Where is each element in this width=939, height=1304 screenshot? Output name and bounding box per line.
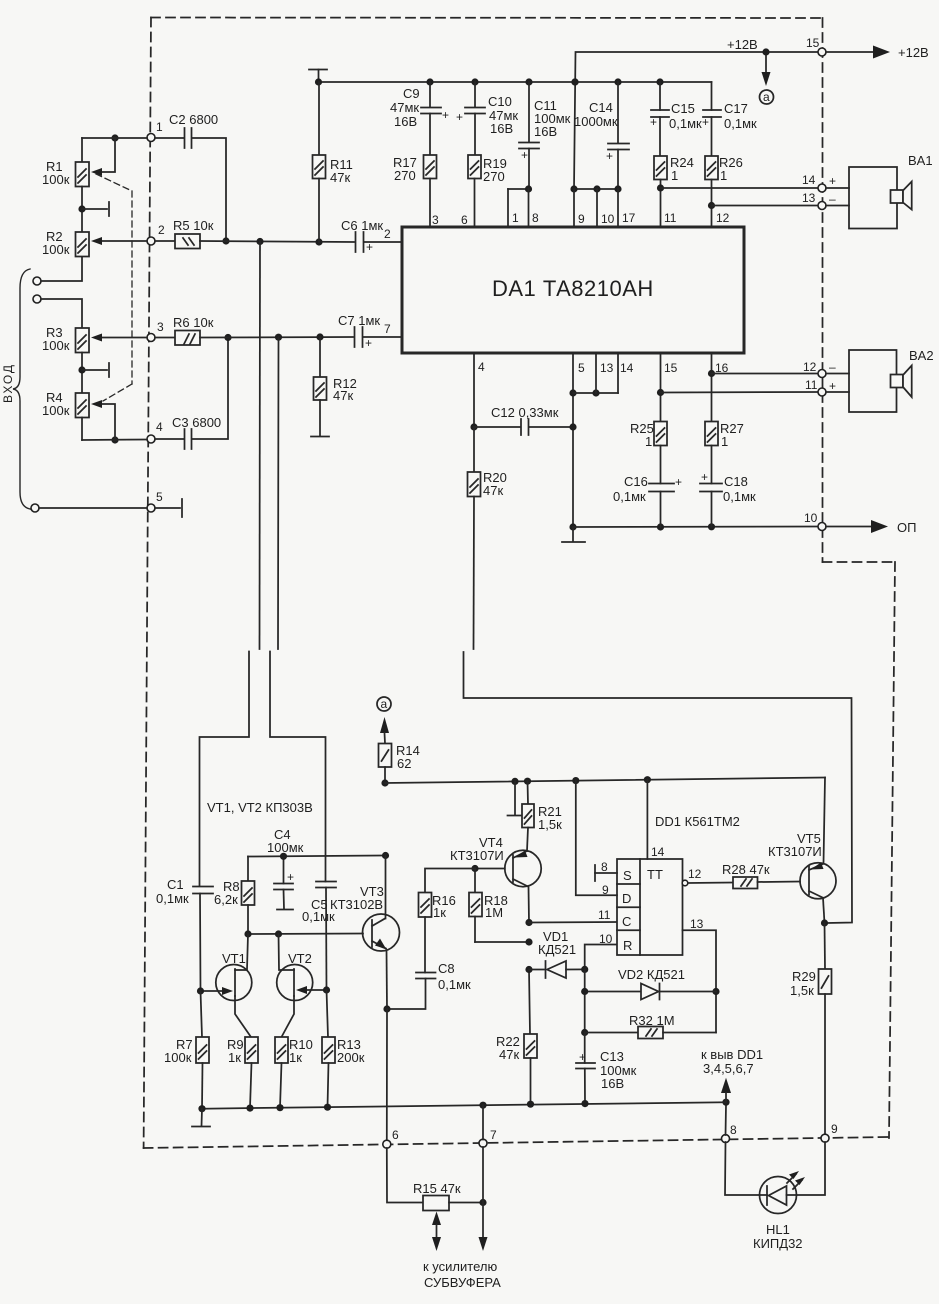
svg-text:+: + — [675, 475, 682, 489]
svg-text:0,1мк: 0,1мк — [156, 891, 189, 906]
wire ground bus outputs — [573, 523, 818, 530]
wire node5 row — [39, 499, 182, 517]
capacitor C3 6800 — [172, 415, 221, 449]
svg-text:R: R — [623, 938, 632, 953]
svg-text:КТ3102В: КТ3102В — [330, 897, 383, 912]
diode VD2 KD521 — [585, 967, 716, 1000]
node 5 — [147, 490, 163, 512]
resistor R1 — [42, 138, 89, 232]
svg-text:C: C — [622, 914, 631, 929]
node 9 — [821, 1122, 838, 1142]
svg-text:15: 15 — [664, 361, 678, 375]
svg-text:12: 12 — [803, 360, 817, 374]
resistor R7 100k — [164, 991, 209, 1109]
svg-text:10: 10 — [804, 511, 818, 525]
resistor R2 — [42, 229, 89, 257]
wire pin 16 down — [708, 353, 729, 422]
resistor R18 1M — [469, 865, 533, 946]
resistor R9 1k — [227, 1037, 258, 1108]
svg-text:3: 3 — [157, 320, 164, 334]
R2 wiper arrow from node 2 — [91, 237, 147, 245]
wire pin 15 down — [657, 353, 678, 422]
resistor R4 — [42, 390, 89, 440]
svg-text:1к: 1к — [228, 1050, 241, 1065]
svg-text:6: 6 — [461, 213, 468, 227]
node 1 — [147, 120, 163, 142]
tap bar between R1 R2 — [78, 202, 109, 216]
capacitor C6 1mk — [341, 218, 383, 254]
svg-text:а: а — [763, 90, 770, 104]
svg-text:+: + — [606, 149, 613, 163]
wire output 13 minus — [712, 191, 837, 206]
svg-text:–: – — [829, 192, 836, 206]
svg-text:1: 1 — [645, 434, 652, 449]
wire output 11 plus — [661, 378, 837, 393]
svg-text:47к: 47к — [330, 170, 350, 185]
ground bar under R12 — [311, 436, 329, 438]
node 4 — [147, 420, 163, 443]
resistor R25 1 — [630, 421, 667, 449]
wire output 12 minus — [712, 360, 837, 374]
wire bus pins 13 14 — [573, 353, 634, 397]
node a circle — [377, 697, 391, 711]
resistor R19 270 — [461, 155, 507, 227]
svg-text:2: 2 — [158, 223, 165, 237]
svg-text:VT1: VT1 — [222, 951, 246, 966]
svg-text:100к: 100к — [42, 403, 70, 418]
DD1 pin 9 D input wire — [576, 781, 617, 897]
svg-text:+: + — [579, 1050, 586, 1064]
svg-text:+: + — [701, 470, 708, 484]
wire bus pins 1 8 — [508, 185, 539, 227]
wire pin 4 down — [470, 353, 485, 431]
svg-text:C7 1мк: C7 1мк — [338, 313, 380, 328]
svg-text:1: 1 — [156, 120, 163, 134]
wire dashed enclosure border right lower — [889, 562, 895, 1138]
input jack 3 — [31, 504, 39, 512]
svg-text:8: 8 — [601, 860, 608, 874]
svg-text:+: + — [442, 108, 449, 122]
svg-text:+: + — [702, 115, 709, 129]
R15 wiper arrow to subwoofer — [432, 1212, 441, 1252]
svg-text:S: S — [623, 868, 632, 883]
wire bus pins 9 10 17 — [570, 185, 635, 227]
wire jack1 to R2 bottom — [41, 256, 82, 282]
svg-text:R29: R29 — [792, 969, 816, 984]
svg-text:СУБВУФЕРА: СУБВУФЕРА — [424, 1275, 501, 1290]
resistor R13 200k — [322, 990, 365, 1107]
svg-text:8: 8 — [532, 211, 539, 225]
svg-text:0,1мк: 0,1мк — [438, 977, 471, 992]
svg-text:1к: 1к — [289, 1050, 302, 1065]
svg-text:C10: C10 — [488, 94, 512, 109]
svg-text:9: 9 — [578, 212, 585, 226]
wire output 14 plus — [661, 173, 837, 188]
resistor R22 47k — [496, 970, 537, 1105]
transistor Q VT2 — [277, 934, 330, 1037]
svg-text:+: + — [365, 336, 372, 350]
input jack 1 — [33, 277, 41, 285]
svg-text:VD2 КД521: VD2 КД521 — [618, 967, 685, 982]
wire node8 to HL1 — [725, 1105, 760, 1195]
mechanical coupling dashed link — [96, 174, 132, 401]
wire node1 row — [82, 137, 184, 139]
svg-text:5: 5 — [156, 490, 163, 504]
wire VD row link — [581, 969, 588, 1036]
svg-text:R6 10к: R6 10к — [173, 315, 214, 330]
svg-text:7: 7 — [384, 322, 391, 336]
svg-text:C8: C8 — [438, 961, 455, 976]
svg-text:C17: C17 — [724, 101, 748, 116]
wire C3 to pin7 row — [192, 334, 232, 439]
ground bar top — [309, 70, 327, 83]
svg-text:100к: 100к — [42, 172, 70, 187]
svg-text:3,4,5,6,7: 3,4,5,6,7 — [703, 1061, 754, 1076]
DD1 pin 14 wire — [647, 780, 664, 859]
capacitor C9 47mk 16V — [390, 82, 449, 155]
svg-text:1,5к: 1,5к — [538, 817, 562, 832]
svg-text:0,1мк: 0,1мк — [723, 489, 756, 504]
resistor R12 47k — [314, 337, 357, 436]
wire ground bus bottom — [198, 1100, 726, 1112]
wire +12V feed — [571, 37, 822, 189]
resistor R3 — [42, 325, 89, 393]
resistor R16 1k — [419, 869, 476, 973]
capacitor C7 1mk — [338, 313, 380, 350]
capacitor C14 1000mk — [574, 82, 629, 189]
capacitor C2 6800 — [169, 112, 218, 148]
svg-text:15: 15 — [806, 36, 820, 50]
resistor R10 1k — [275, 1037, 313, 1108]
capacitor C10 47mk 16V — [456, 82, 518, 155]
transistor Q VT4 — [450, 835, 541, 923]
resistor R17 270 — [393, 155, 439, 227]
wire node6 to R15 — [387, 1148, 423, 1203]
svg-text:12: 12 — [688, 867, 702, 881]
svg-text:2: 2 — [384, 227, 391, 241]
svg-text:–: – — [829, 360, 836, 374]
flip-flop DD1 K561TM2 — [617, 814, 740, 955]
wire right channel feed lower — [270, 652, 326, 882]
wire left channel feed lower — [200, 652, 250, 887]
resistor R8 6.2k — [214, 857, 255, 935]
svg-text:16В: 16В — [490, 121, 513, 136]
svg-text:16В: 16В — [394, 114, 417, 129]
node 3 — [147, 320, 164, 342]
wire collector bus VT3 — [248, 852, 389, 860]
wire node7 down arrow — [479, 1147, 488, 1251]
svg-text:C18: C18 — [724, 474, 748, 489]
node 2 — [147, 223, 165, 245]
capacitor C8 0.1mk — [383, 961, 471, 1013]
wire VT3 base line — [244, 930, 363, 937]
capacitor C1 0.1mk — [156, 877, 213, 991]
svg-text:4: 4 — [156, 420, 163, 434]
svg-text:к усилителю: к усилителю — [423, 1259, 497, 1274]
svg-text:ОП: ОП — [897, 520, 916, 535]
wire node12 to BA2 — [826, 373, 849, 375]
capacitor C18 0.1mk — [700, 446, 756, 527]
wire node14 to BA1 — [826, 187, 849, 189]
node 13 — [818, 202, 826, 210]
DD1 pin 13 wire — [683, 917, 720, 1033]
resistor R28 47k — [722, 862, 800, 889]
svg-text:DD1 К561ТМ2: DD1 К561ТМ2 — [655, 814, 740, 829]
svg-text:КТ3107И: КТ3107И — [450, 848, 504, 863]
input brace — [13, 269, 30, 509]
input jack 2 — [33, 295, 41, 303]
svg-text:13: 13 — [802, 191, 816, 205]
label subwoofer output — [423, 1259, 501, 1290]
svg-text:13: 13 — [600, 361, 614, 375]
svg-text:КИПД32: КИПД32 — [753, 1236, 803, 1251]
svg-text:14: 14 — [651, 845, 665, 859]
svg-text:ВХОД: ВХОД — [1, 365, 15, 403]
R1 wiper arrow — [91, 134, 119, 176]
svg-text:DA1 ТА8210АН: DA1 ТА8210АН — [492, 276, 654, 301]
wire mid rail — [385, 776, 825, 785]
wire VT3 emitter to node 6 — [386, 1009, 388, 1140]
svg-text:12: 12 — [716, 211, 730, 225]
svg-text:100к: 100к — [164, 1050, 192, 1065]
resistor R14 62 — [379, 743, 420, 787]
tap bar between R3 R4 — [78, 363, 109, 377]
resistor R29 1.5k — [790, 923, 832, 1136]
svg-text:8: 8 — [730, 1123, 737, 1137]
svg-text:1М: 1М — [485, 905, 503, 920]
wire top supply rail — [315, 78, 712, 85]
diode VD1 KD521 — [525, 929, 584, 978]
wire pin7 row — [200, 333, 353, 340]
+12V output arrow — [826, 45, 929, 60]
capacitor C17 0.1mk — [702, 82, 757, 156]
R4 wiper arrow — [91, 400, 119, 444]
DD1 pin 12 output — [682, 867, 733, 886]
arrow to DD1 supply pins — [701, 1047, 763, 1106]
wire pin2 row — [200, 238, 354, 246]
wire C6 to DA1 pin 2 — [364, 227, 402, 242]
svg-text:16В: 16В — [601, 1076, 624, 1091]
wire node13 to BA1 — [826, 205, 849, 207]
wire dashed enclosure border right upper — [822, 18, 824, 562]
OP output arrow — [826, 520, 916, 535]
wire jack2 to R3 top — [41, 299, 82, 328]
svg-text:ТТ: ТТ — [647, 867, 663, 882]
svg-text:+: + — [829, 174, 836, 188]
LED HL1 KIPD32 — [753, 1171, 805, 1251]
node 10 — [804, 511, 826, 531]
svg-text:+12В: +12В — [727, 37, 758, 52]
potentiometer R15 47k — [413, 1181, 487, 1211]
resistor R20 47k — [468, 427, 507, 498]
svg-text:1: 1 — [671, 168, 678, 183]
svg-text:BA2: BA2 — [909, 348, 934, 363]
R3 wiper arrow from node 3 — [91, 334, 147, 342]
resistor R32 1M — [585, 1013, 716, 1039]
svg-text:14: 14 — [802, 173, 816, 187]
wire DD1 C input — [525, 908, 617, 926]
wire left channel feed upper — [259, 242, 262, 650]
svg-text:R5 10к: R5 10к — [173, 218, 214, 233]
node 8 — [722, 1123, 738, 1143]
svg-text:+12В: +12В — [898, 45, 929, 60]
wire dashed enclosure border jog — [823, 561, 896, 563]
speaker BA1 — [849, 153, 933, 229]
svg-text:R32 1М: R32 1М — [629, 1013, 675, 1028]
svg-text:VT2: VT2 — [288, 951, 312, 966]
svg-text:C3 6800: C3 6800 — [172, 415, 221, 430]
svg-text:11: 11 — [805, 378, 818, 392]
svg-text:62: 62 — [397, 756, 411, 771]
svg-text:+: + — [456, 110, 463, 124]
node a power arrow down — [760, 56, 774, 104]
svg-text:1к: 1к — [433, 905, 446, 920]
svg-text:C9: C9 — [403, 86, 420, 101]
svg-text:270: 270 — [483, 169, 505, 184]
capacitor C12 0.33mk — [474, 405, 573, 435]
svg-text:100мк: 100мк — [267, 840, 304, 855]
wire DD1 R input — [581, 932, 617, 973]
svg-text:47к: 47к — [333, 388, 353, 403]
wire node7 from bus — [482, 1105, 484, 1139]
svg-text:5: 5 — [578, 361, 585, 375]
svg-text:+: + — [829, 379, 836, 393]
resistor R21 1.5k — [522, 781, 562, 851]
svg-text:11: 11 — [598, 908, 611, 922]
svg-text:11: 11 — [664, 211, 677, 225]
transistor Q VT1 — [197, 934, 252, 1037]
svg-text:9: 9 — [831, 1122, 838, 1136]
node 11 — [818, 388, 826, 396]
svg-text:100к: 100к — [42, 338, 70, 353]
svg-text:C14: C14 — [589, 100, 613, 115]
svg-text:D: D — [622, 891, 631, 906]
svg-text:100к: 100к — [42, 242, 70, 257]
svg-text:0,1мк: 0,1мк — [669, 116, 702, 131]
transistor Q VT5 — [768, 778, 836, 927]
svg-text:C15: C15 — [671, 101, 695, 116]
resistor R26 1 — [705, 155, 743, 227]
svg-text:C12 0,33мк: C12 0,33мк — [491, 405, 559, 420]
svg-text:3: 3 — [432, 213, 439, 227]
svg-text:C6 1мк: C6 1мк — [341, 218, 383, 233]
node 15 — [806, 36, 826, 56]
svg-text:4: 4 — [478, 360, 485, 374]
resistor R24 1 — [654, 155, 694, 227]
wire node11 to BA2 — [826, 391, 849, 393]
capacitor C16 0.1mk — [613, 446, 682, 528]
wire dashed enclosure border top — [151, 17, 823, 20]
svg-text:47мк: 47мк — [390, 100, 419, 115]
svg-text:C16: C16 — [624, 474, 648, 489]
svg-text:47к: 47к — [499, 1047, 519, 1062]
speaker BA2 — [849, 348, 934, 412]
svg-text:а: а — [381, 697, 388, 711]
svg-text:10: 10 — [601, 212, 615, 226]
svg-text:C13: C13 — [600, 1049, 624, 1064]
svg-text:1000мк: 1000мк — [574, 114, 618, 129]
svg-text:BA1: BA1 — [908, 153, 933, 168]
svg-text:+: + — [650, 115, 657, 129]
svg-text:47к: 47к — [483, 483, 503, 498]
resistor R11 47k — [313, 82, 353, 242]
svg-text:9: 9 — [602, 883, 609, 897]
svg-text:C1: C1 — [167, 877, 184, 892]
svg-text:14: 14 — [620, 361, 634, 375]
wire pin 5 down — [569, 353, 585, 531]
wire R20 to VT5 collector — [464, 497, 853, 924]
node 14 — [818, 184, 826, 192]
node 6 — [383, 1128, 399, 1148]
svg-text:10: 10 — [599, 932, 613, 946]
wire node4 row — [82, 439, 184, 440]
node 7 — [479, 1128, 497, 1147]
wire right channel feed upper — [277, 337, 280, 649]
resistor R27 1 — [705, 421, 744, 449]
svg-text:1: 1 — [720, 168, 727, 183]
capacitor C11 100mk 16V — [519, 82, 571, 189]
svg-text:1: 1 — [512, 211, 519, 225]
svg-text:КД521: КД521 — [538, 942, 576, 957]
resistor R6 10k — [155, 315, 214, 345]
svg-text:7: 7 — [490, 1128, 497, 1142]
svg-text:HL1: HL1 — [766, 1222, 790, 1237]
svg-text:6,2к: 6,2к — [214, 892, 238, 907]
node 12 — [818, 370, 826, 378]
svg-text:16В: 16В — [534, 124, 557, 139]
svg-text:0,1мк: 0,1мк — [613, 489, 646, 504]
svg-text:17: 17 — [622, 211, 636, 225]
svg-text:R28 47к: R28 47к — [722, 862, 770, 877]
wire C2 to pin2 row — [192, 138, 230, 245]
ground symbol bottom left — [192, 1109, 210, 1127]
wire dashed enclosure border bottom — [144, 1137, 889, 1148]
transistor Q VT3 — [330, 856, 400, 1010]
wire C7 to DA1 pin 7 — [363, 322, 402, 337]
svg-text:1: 1 — [721, 434, 728, 449]
capacitor C4 100mk — [267, 827, 304, 910]
svg-text:1,5к: 1,5к — [790, 983, 814, 998]
svg-text:C2 6800: C2 6800 — [169, 112, 218, 127]
wire dashed enclosure border left — [144, 18, 151, 1149]
op-amp U1 DA1 TA8210AH — [402, 227, 744, 353]
capacitor C15 0.1mk — [650, 82, 702, 156]
svg-text:+: + — [287, 870, 294, 884]
wire node9 to HL1 — [797, 1142, 826, 1195]
capacitor C5 0.1mk — [302, 882, 336, 991]
svg-text:+: + — [521, 148, 528, 162]
capacitor C13 100mk 16V — [576, 1033, 637, 1103]
svg-text:200к: 200к — [337, 1050, 365, 1065]
svg-text:к выв DD1: к выв DD1 — [701, 1047, 763, 1062]
svg-text:КТ3107И: КТ3107И — [768, 844, 822, 859]
DD1 pin 8 S stub — [595, 860, 617, 881]
stub bar left of R21 — [508, 781, 523, 815]
svg-text:6: 6 — [392, 1128, 399, 1142]
ground symbol pin5 — [562, 527, 585, 542]
resistor R5 10k — [155, 218, 214, 249]
svg-text:0,1мк: 0,1мк — [724, 116, 757, 131]
svg-text:270: 270 — [394, 168, 416, 183]
arrow to node a — [380, 717, 389, 744]
svg-text:R15 47к: R15 47к — [413, 1181, 461, 1196]
svg-text:13: 13 — [690, 917, 704, 931]
svg-text:VT1, VT2 КП303В: VT1, VT2 КП303В — [207, 800, 313, 815]
